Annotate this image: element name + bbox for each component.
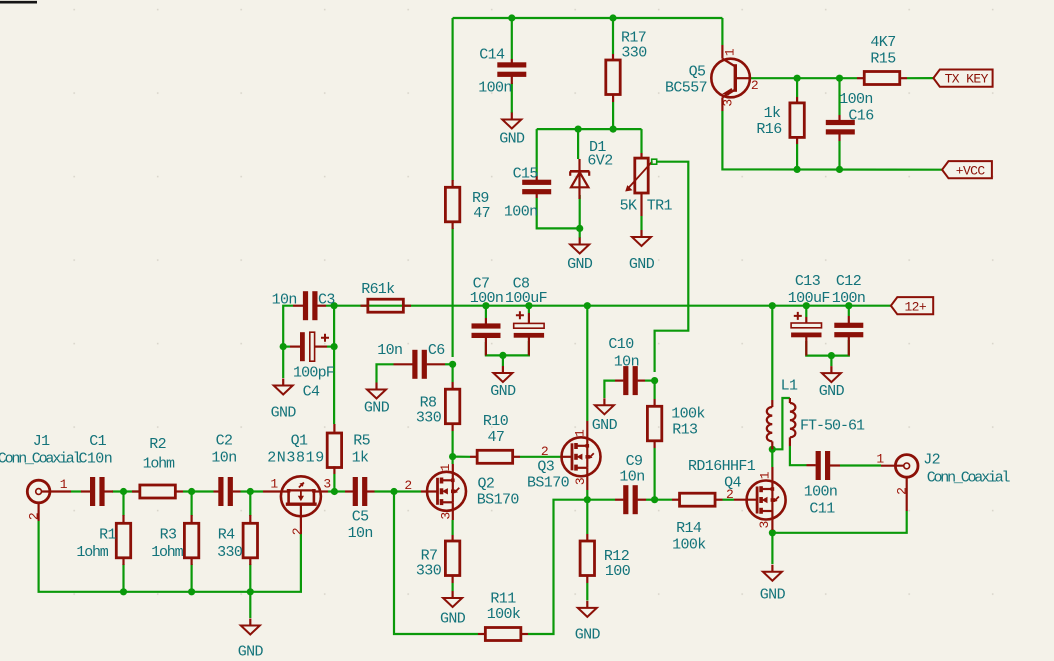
svg-text:100k: 100k bbox=[672, 537, 706, 554]
svg-text:Conn_Coaxial: Conn_Coaxial bbox=[927, 470, 1011, 487]
svg-text:R3: R3 bbox=[160, 526, 177, 543]
svg-text:100n: 100n bbox=[470, 290, 504, 307]
wire bbox=[771, 449, 773, 467]
wire bbox=[511, 18, 513, 59]
junction bbox=[609, 14, 616, 21]
svg-text:1ohm: 1ohm bbox=[76, 544, 108, 561]
wire bbox=[528, 306, 530, 313]
resistor R1 bbox=[116, 523, 130, 558]
svg-text:GND: GND bbox=[760, 586, 786, 603]
svg-text:C14: C14 bbox=[479, 46, 505, 63]
svg-text:10n: 10n bbox=[377, 342, 402, 359]
resistor R14 bbox=[680, 493, 716, 506]
capacitor C11 bbox=[816, 451, 821, 480]
wire bbox=[528, 500, 587, 634]
svg-text:R6: R6 bbox=[361, 281, 378, 298]
wire bbox=[790, 446, 807, 465]
wire bbox=[612, 18, 614, 54]
svg-text:J1: J1 bbox=[33, 433, 50, 450]
junction bbox=[576, 225, 583, 232]
junction bbox=[120, 488, 127, 495]
wire bbox=[721, 18, 723, 45]
wire bbox=[452, 431, 454, 464]
resistor R2 bbox=[140, 485, 176, 498]
resistor R8 bbox=[445, 389, 459, 424]
wire bbox=[838, 78, 840, 115]
resistor R7 bbox=[445, 541, 459, 576]
wire bbox=[452, 520, 454, 535]
resistor R15 bbox=[864, 72, 900, 85]
wire bbox=[751, 77, 857, 79]
capacitor C16 bbox=[826, 120, 855, 125]
svg-text:2: 2 bbox=[26, 513, 41, 520]
wire bbox=[830, 356, 832, 366]
wire bbox=[452, 583, 454, 591]
wire bbox=[334, 490, 345, 492]
junction bbox=[828, 352, 835, 359]
wire bbox=[452, 364, 454, 382]
wire bbox=[579, 195, 581, 228]
ground bbox=[579, 238, 581, 245]
svg-text:R4: R4 bbox=[218, 526, 235, 543]
svg-text:2: 2 bbox=[894, 488, 909, 495]
wire bbox=[71, 490, 82, 492]
wire bbox=[577, 129, 579, 159]
wire bbox=[586, 306, 588, 421]
junction bbox=[525, 302, 532, 309]
wire bbox=[249, 564, 251, 592]
junction bbox=[331, 302, 338, 309]
svg-text:GND: GND bbox=[490, 383, 516, 400]
svg-text:3: 3 bbox=[438, 512, 453, 519]
wire bbox=[586, 583, 588, 601]
svg-text:C6: C6 bbox=[428, 342, 445, 359]
svg-text:R11: R11 bbox=[490, 591, 516, 608]
wire bbox=[772, 398, 790, 449]
svg-text:C9: C9 bbox=[626, 453, 643, 470]
capacitor C10 bbox=[623, 366, 628, 395]
svg-text:GND: GND bbox=[575, 626, 601, 643]
resistor R3 bbox=[184, 523, 198, 558]
wire bbox=[640, 129, 642, 153]
resistor R17 bbox=[606, 60, 620, 95]
capacitor C4 bbox=[300, 332, 305, 361]
wire bbox=[502, 355, 504, 366]
capacitor C7 bbox=[472, 323, 501, 328]
junction bbox=[247, 488, 254, 495]
ground bbox=[830, 366, 832, 373]
svg-text:1ohm: 1ohm bbox=[143, 456, 175, 473]
inductor L1 bbox=[771, 400, 773, 407]
svg-text:3: 3 bbox=[323, 476, 330, 491]
ground bbox=[282, 379, 284, 386]
svg-text:1: 1 bbox=[573, 429, 588, 437]
capacitor C13 bbox=[791, 323, 821, 328]
wire bbox=[612, 102, 614, 129]
connector J2 bbox=[895, 455, 918, 478]
svg-text:GND: GND bbox=[271, 405, 297, 422]
capacitor C14 bbox=[497, 62, 526, 67]
junction bbox=[769, 302, 776, 309]
svg-text:BC557: BC557 bbox=[665, 79, 707, 96]
svg-text:TX KEY: TX KEY bbox=[945, 72, 989, 87]
svg-text:100: 100 bbox=[605, 563, 631, 580]
junction bbox=[482, 302, 489, 309]
svg-text:C15: C15 bbox=[513, 165, 539, 182]
wire bbox=[112, 490, 140, 492]
wire bbox=[183, 490, 214, 492]
ground bbox=[603, 398, 605, 405]
wire bbox=[645, 380, 655, 382]
junction bbox=[449, 361, 456, 368]
wire bbox=[445, 363, 453, 365]
svg-text:RD16HHF1: RD16HHF1 bbox=[688, 458, 756, 475]
wire bbox=[805, 306, 807, 317]
junction bbox=[651, 496, 658, 503]
svg-text:C2: C2 bbox=[216, 432, 233, 449]
wire bbox=[536, 129, 538, 176]
svg-text:FT-50-61: FT-50-61 bbox=[800, 417, 865, 434]
wire bbox=[646, 499, 655, 501]
wire bbox=[772, 511, 906, 533]
svg-text:GND: GND bbox=[567, 256, 593, 273]
wire bbox=[375, 490, 422, 492]
svg-text:C3: C3 bbox=[318, 291, 335, 308]
ground bbox=[375, 383, 377, 390]
transistor Q1 bbox=[281, 476, 321, 516]
wire bbox=[806, 341, 831, 356]
connector J1 bbox=[27, 480, 50, 503]
svg-text:330: 330 bbox=[416, 562, 442, 579]
svg-text:BS170: BS170 bbox=[527, 475, 570, 492]
wire bbox=[452, 228, 454, 357]
junction bbox=[390, 488, 397, 495]
svg-text:R14: R14 bbox=[676, 520, 702, 537]
wire bbox=[520, 456, 561, 458]
wire bbox=[283, 306, 293, 378]
svg-text:1k: 1k bbox=[352, 450, 369, 467]
ground bbox=[502, 366, 504, 373]
junction bbox=[845, 302, 852, 309]
transistor Q4 bbox=[747, 481, 786, 520]
junction bbox=[794, 75, 801, 82]
svg-text:+VCC: +VCC bbox=[956, 163, 986, 178]
wire bbox=[283, 346, 290, 348]
svg-text:C16: C16 bbox=[848, 107, 874, 124]
pins Q4 bbox=[734, 499, 757, 501]
svg-text:C10: C10 bbox=[608, 336, 634, 353]
wire bbox=[771, 306, 773, 400]
wire bbox=[39, 521, 301, 592]
svg-text:100k: 100k bbox=[487, 606, 521, 623]
wire bbox=[907, 77, 933, 79]
wire bbox=[511, 83, 513, 113]
svg-text:C13: C13 bbox=[795, 273, 821, 290]
transistor Q3 bbox=[562, 437, 601, 476]
svg-text:Q4: Q4 bbox=[724, 474, 741, 491]
junction bbox=[508, 14, 515, 21]
wire bbox=[452, 18, 454, 181]
svg-text:C10n: C10n bbox=[78, 451, 112, 468]
svg-text:Q1: Q1 bbox=[291, 432, 308, 449]
junction bbox=[584, 496, 591, 503]
wire bbox=[249, 492, 251, 517]
capacitor C1 bbox=[90, 477, 95, 506]
svg-text:2: 2 bbox=[541, 444, 548, 459]
svg-text:GND: GND bbox=[499, 131, 525, 148]
junction bbox=[499, 352, 506, 359]
wire bbox=[587, 499, 615, 501]
wire bbox=[333, 474, 335, 492]
junction bbox=[769, 529, 776, 536]
resistor R12 bbox=[580, 541, 594, 576]
sheet border fragment bbox=[0, 1, 37, 4]
svg-text:C1: C1 bbox=[89, 433, 106, 450]
svg-text:100uF: 100uF bbox=[505, 290, 547, 307]
power flag 12+ bbox=[891, 297, 933, 314]
junction bbox=[331, 488, 338, 495]
wire bbox=[722, 111, 942, 170]
resistor R4 bbox=[243, 523, 257, 558]
junction bbox=[584, 302, 591, 309]
svg-text:100pF: 100pF bbox=[293, 364, 334, 381]
resistor R16 bbox=[790, 103, 804, 137]
svg-text:10n: 10n bbox=[348, 525, 373, 542]
wire bbox=[377, 364, 394, 382]
junction bbox=[794, 166, 801, 173]
svg-text:C4: C4 bbox=[303, 383, 320, 400]
wire bbox=[848, 306, 850, 316]
svg-text:10n: 10n bbox=[614, 354, 639, 371]
junction bbox=[836, 166, 843, 173]
svg-text:1k: 1k bbox=[764, 105, 781, 122]
svg-text:1: 1 bbox=[758, 471, 773, 479]
junction bbox=[651, 377, 658, 384]
wire bbox=[394, 492, 478, 635]
pins Q3 bbox=[561, 456, 572, 458]
svg-text:J2: J2 bbox=[923, 451, 940, 468]
svg-text:47: 47 bbox=[487, 429, 504, 446]
svg-text:2: 2 bbox=[290, 528, 305, 535]
svg-text:GND: GND bbox=[364, 399, 390, 416]
resistor R11 bbox=[485, 628, 520, 641]
resistor R6 bbox=[368, 299, 404, 312]
capacitor C12 bbox=[834, 323, 863, 328]
svg-text:100k: 100k bbox=[671, 405, 705, 422]
svg-text:5K: 5K bbox=[620, 197, 637, 214]
svg-text:2: 2 bbox=[404, 478, 411, 493]
svg-text:1: 1 bbox=[438, 463, 453, 471]
wire bbox=[653, 448, 655, 500]
svg-text:R5: R5 bbox=[353, 432, 370, 449]
wire bbox=[586, 490, 588, 500]
wire bbox=[241, 490, 264, 492]
wire bbox=[796, 144, 798, 169]
svg-text:R16: R16 bbox=[756, 121, 782, 138]
resistor R13 bbox=[647, 406, 661, 441]
svg-text:TR1: TR1 bbox=[647, 197, 673, 214]
transistor Q5 bbox=[711, 59, 750, 98]
wire bbox=[640, 216, 642, 230]
svg-text:10n: 10n bbox=[211, 450, 236, 467]
junction bbox=[449, 453, 456, 460]
capacitor C3 bbox=[303, 291, 308, 320]
wire bbox=[655, 162, 689, 372]
wire bbox=[191, 564, 193, 592]
wire bbox=[328, 490, 334, 492]
svg-text:1: 1 bbox=[723, 48, 738, 56]
wire bbox=[604, 381, 615, 398]
capacitor C2 bbox=[218, 477, 223, 506]
svg-text:100n: 100n bbox=[478, 80, 512, 97]
diode D1 bbox=[578, 159, 580, 199]
svg-text:GND: GND bbox=[629, 256, 655, 273]
wire bbox=[840, 464, 881, 466]
junction bbox=[280, 343, 287, 350]
svg-text:C11: C11 bbox=[809, 501, 835, 518]
wire bbox=[796, 78, 798, 97]
wire bbox=[537, 128, 642, 130]
resistor R10 bbox=[477, 450, 513, 463]
capacitor C5 bbox=[353, 477, 358, 506]
svg-text:330: 330 bbox=[621, 44, 647, 61]
capacitor C15 bbox=[522, 180, 551, 185]
svg-text:BS170: BS170 bbox=[477, 492, 520, 509]
ground bbox=[511, 113, 513, 120]
wire bbox=[122, 564, 124, 592]
wire bbox=[485, 306, 487, 318]
svg-text:330: 330 bbox=[217, 544, 243, 561]
svg-text:12+: 12+ bbox=[904, 299, 926, 314]
power flag TX_KEY bbox=[933, 70, 992, 87]
svg-text:C5: C5 bbox=[352, 509, 369, 526]
capacitor C6 bbox=[412, 350, 417, 379]
svg-text:GND: GND bbox=[440, 610, 466, 627]
pins Q2 bbox=[421, 490, 438, 492]
resistor R5 bbox=[327, 433, 341, 468]
svg-text:100n: 100n bbox=[839, 91, 873, 108]
ground bbox=[586, 601, 588, 608]
wire bbox=[453, 17, 723, 19]
svg-text:100uF: 100uF bbox=[788, 290, 830, 307]
svg-text:GND: GND bbox=[238, 643, 264, 660]
wire bbox=[122, 492, 124, 517]
junction bbox=[610, 126, 617, 133]
junction bbox=[331, 343, 338, 350]
junction bbox=[188, 488, 195, 495]
wire bbox=[327, 346, 334, 348]
svg-text:1: 1 bbox=[876, 452, 884, 467]
svg-text:Conn_Coaxial: Conn_Coaxial bbox=[0, 450, 82, 467]
wire bbox=[653, 381, 655, 399]
wire bbox=[838, 141, 840, 169]
svg-text:L1: L1 bbox=[781, 377, 798, 394]
resistor R9 bbox=[445, 187, 459, 222]
svg-text:100n: 100n bbox=[504, 203, 538, 220]
svg-text:Q5: Q5 bbox=[689, 63, 706, 80]
ground bbox=[452, 591, 454, 598]
svg-text:100n: 100n bbox=[804, 483, 838, 500]
wire bbox=[191, 492, 193, 517]
wire bbox=[333, 306, 335, 424]
wire bbox=[453, 456, 470, 458]
svg-text:R2: R2 bbox=[149, 436, 166, 453]
wire bbox=[723, 499, 735, 501]
wire bbox=[486, 342, 503, 355]
wire bbox=[586, 500, 588, 534]
svg-text:10n: 10n bbox=[272, 291, 297, 308]
wire bbox=[537, 198, 580, 228]
svg-text:R10: R10 bbox=[483, 413, 509, 430]
svg-text:1: 1 bbox=[60, 477, 68, 492]
junction bbox=[769, 446, 776, 453]
svg-text:Q3: Q3 bbox=[537, 458, 554, 475]
svg-text:2N3819: 2N3819 bbox=[267, 450, 325, 467]
transistor Q2 bbox=[427, 472, 466, 511]
wire bbox=[503, 341, 529, 355]
ground bbox=[771, 565, 773, 572]
svg-text:4K7: 4K7 bbox=[870, 34, 895, 51]
junction bbox=[120, 588, 127, 595]
svg-text:R13: R13 bbox=[672, 421, 698, 438]
svg-text:3: 3 bbox=[721, 99, 736, 106]
svg-text:100n: 100n bbox=[832, 290, 866, 307]
junction bbox=[188, 588, 195, 595]
capacitor C8 bbox=[514, 323, 544, 328]
svg-text:R1: R1 bbox=[99, 526, 116, 543]
svg-text:1: 1 bbox=[270, 476, 278, 491]
svg-text:2: 2 bbox=[751, 78, 758, 93]
svg-text:3: 3 bbox=[573, 478, 588, 485]
power flag +VCC bbox=[942, 161, 992, 178]
ground bbox=[249, 619, 251, 626]
wire bbox=[326, 305, 891, 307]
svg-text:6V2: 6V2 bbox=[587, 153, 612, 170]
svg-text:1ohm: 1ohm bbox=[151, 544, 183, 561]
svg-text:GND: GND bbox=[592, 417, 618, 434]
svg-text:R15: R15 bbox=[870, 50, 896, 67]
svg-text:C12: C12 bbox=[836, 273, 861, 290]
svg-text:10n: 10n bbox=[619, 468, 644, 485]
junction bbox=[836, 75, 843, 82]
wire bbox=[579, 228, 581, 238]
wire bbox=[831, 340, 848, 356]
ground bbox=[640, 230, 642, 237]
svg-text:3: 3 bbox=[757, 521, 772, 528]
junction bbox=[803, 302, 810, 309]
junction bbox=[575, 126, 582, 133]
capacitor C9 bbox=[623, 485, 628, 514]
svg-text:47: 47 bbox=[473, 205, 490, 222]
wire bbox=[771, 530, 773, 564]
junction bbox=[247, 588, 254, 595]
svg-text:Q2: Q2 bbox=[477, 475, 494, 492]
trimmer TR1 bbox=[635, 158, 648, 193]
svg-text:330: 330 bbox=[416, 409, 442, 426]
wire bbox=[655, 499, 672, 501]
svg-text:GND: GND bbox=[819, 383, 845, 400]
wire bbox=[249, 592, 251, 618]
svg-text:1k: 1k bbox=[378, 281, 395, 298]
